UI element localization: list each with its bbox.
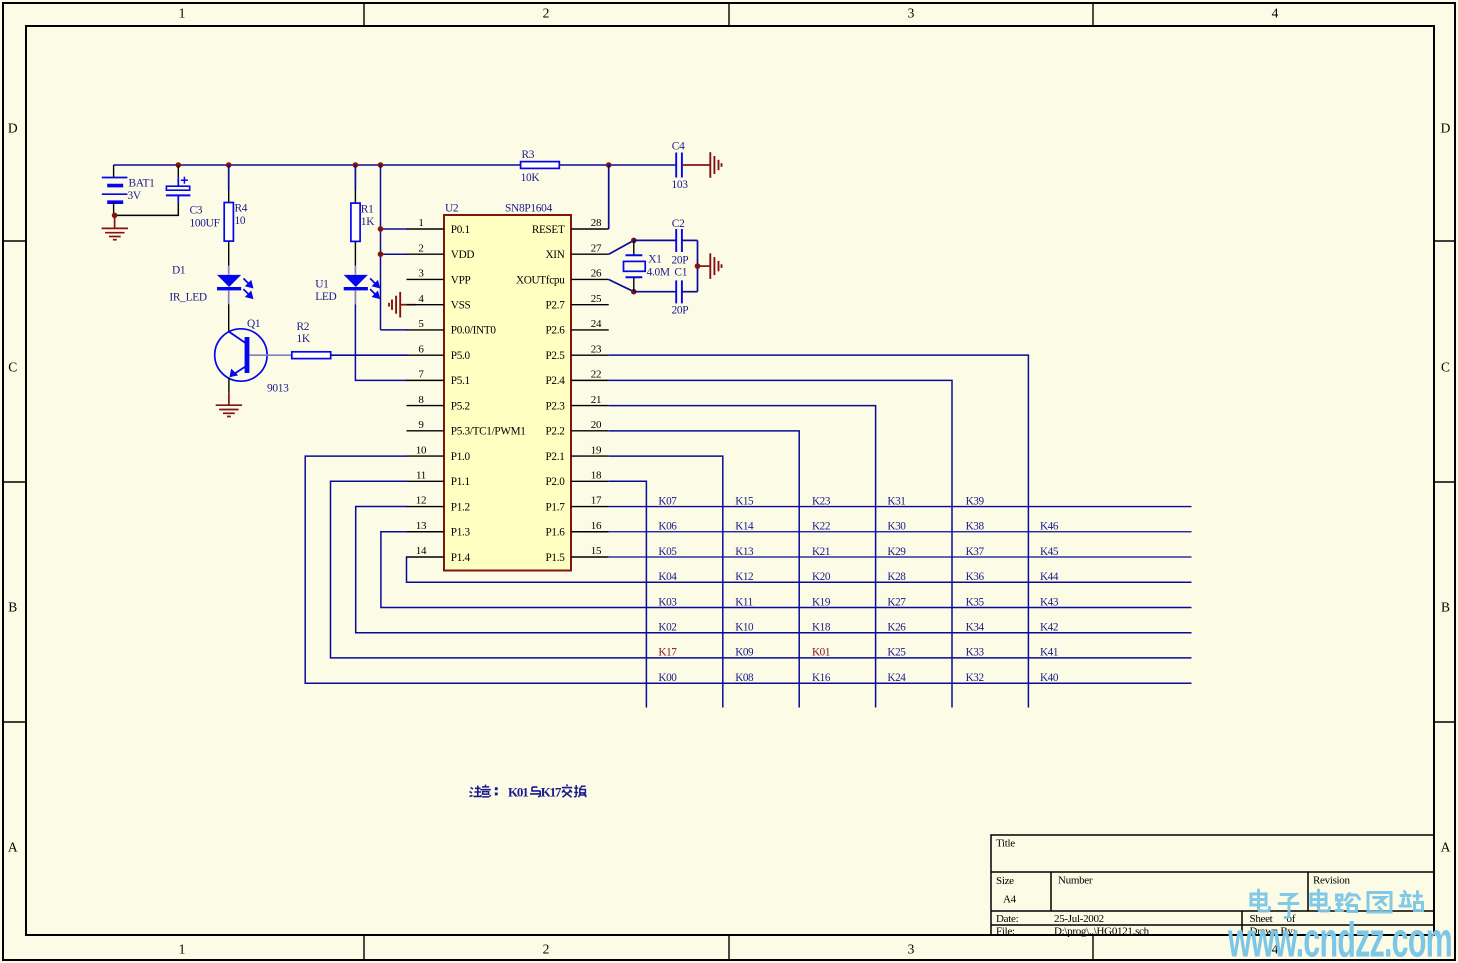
svg-text:SN8P1604: SN8P1604 [505,203,553,215]
svg-text:K37: K37 [966,546,985,558]
pin 12 P1.2 [407,495,470,514]
svg-text:2: 2 [543,6,550,21]
svg-text:C: C [8,360,17,375]
wire column P2.5 [609,355,1029,707]
svg-text:K01: K01 [508,785,528,800]
svg-text:20P: 20P [672,305,689,317]
wire battery to C3 bottom [115,203,179,215]
IC U2 SN8P1604 [444,203,571,571]
svg-text:K14: K14 [735,521,754,533]
svg-text:2: 2 [418,242,423,254]
svg-text:K22: K22 [812,521,830,533]
svg-text:K17: K17 [658,647,677,659]
resistor R3 10K [521,149,560,184]
svg-text:26: 26 [591,268,602,280]
pin 13 P1.3 [407,520,471,539]
wire row P1.4 (K04) [407,557,1192,582]
wire VCC rail [114,164,676,166]
svg-text:K21: K21 [812,546,830,558]
svg-text:3: 3 [908,6,915,21]
svg-text:P1.6: P1.6 [545,527,565,539]
svg-text:P2.6: P2.6 [545,325,565,337]
battery BAT1 3V [102,165,155,215]
svg-text:R1: R1 [361,203,374,215]
svg-text:D:\prog\..\HG0121.sch: D:\prog\..\HG0121.sch [1054,925,1150,937]
pin 26 XOUTfcpu [516,268,609,287]
svg-text:K24: K24 [887,672,906,684]
junction VDD/P0.1 [378,226,384,232]
ground Q1 GND [228,392,230,405]
watermark cndzz.com [1251,890,1423,918]
svg-text:K44: K44 [1040,571,1059,583]
svg-text:Size: Size [996,875,1014,887]
svg-text:K08: K08 [735,672,754,684]
pin 7 P5.1 [407,369,470,388]
svg-text:X1: X1 [648,253,662,265]
svg-text:K11: K11 [735,596,753,608]
svg-text:Date:: Date: [996,913,1019,925]
svg-text:XIN: XIN [546,249,565,261]
svg-text:1: 1 [418,217,423,229]
svg-text:A: A [8,840,18,855]
svg-text:27: 27 [591,242,602,254]
pin 4 VSS [407,293,471,312]
svg-text:Revision: Revision [1313,875,1351,887]
svg-text:20: 20 [591,419,602,431]
pin 8 P5.2 [407,394,470,413]
svg-text:10K: 10K [521,172,541,184]
svg-text:C2: C2 [672,218,685,230]
pin 14 P1.4 [407,545,471,564]
wire column P2.4 [609,380,952,707]
svg-text:K04: K04 [658,571,677,583]
svg-text:K39: K39 [966,495,985,507]
svg-text:13: 13 [416,520,427,532]
wire column P2.2 [609,431,800,708]
wire D1 to Q1 collector [228,304,230,331]
pin 6 P5.0 [407,343,471,362]
pin 19 P2.1 [545,444,608,463]
pin 27 XIN [546,242,609,261]
svg-text:K28: K28 [887,571,906,583]
svg-text:11: 11 [416,470,426,482]
crystal X1 4.0M [624,240,670,291]
wire row P1.0 (K00) [305,456,1191,683]
svg-text:9: 9 [418,419,424,431]
svg-text:15: 15 [591,545,602,557]
svg-text:103: 103 [672,179,689,191]
svg-text:K18: K18 [812,622,831,634]
svg-text:File:: File: [996,925,1015,937]
transistor Q1 9013 [215,318,292,395]
svg-text:P0.1: P0.1 [451,224,470,236]
svg-text:C: C [1441,360,1450,375]
wire row P1.3 (K03) [381,532,1192,608]
svg-text:K00: K00 [658,672,677,684]
wire row P1.1 (K17) [331,481,1192,658]
wire XIN diagonal [609,240,634,254]
wire RESET net [608,165,610,229]
svg-text:K23: K23 [812,495,831,507]
svg-text:4.0M: 4.0M [647,267,670,279]
pin 1 P0.1 [407,217,470,236]
svg-text:P2.0: P2.0 [545,476,565,488]
svg-text:D: D [1441,120,1451,135]
svg-text:1: 1 [179,6,186,21]
svg-text:R4: R4 [235,203,248,215]
svg-text:K03: K03 [658,596,677,608]
junction XIN node [631,238,637,244]
capacitor C3 100UF [166,166,220,230]
ground battery GND [114,215,116,228]
svg-text:1K: 1K [297,333,311,345]
svg-text:K20: K20 [812,571,831,583]
svg-text:P1.5: P1.5 [545,552,565,564]
svg-text:3V: 3V [128,190,142,202]
svg-text:K26: K26 [887,622,906,634]
pin 23 P2.5 [545,343,608,362]
wire U1 cathode to pin P5.1 [355,304,407,380]
pin 24 P2.6 [545,318,608,337]
svg-text:3: 3 [908,942,915,957]
svg-text:P2.3: P2.3 [545,400,565,412]
svg-text:K46: K46 [1040,521,1059,533]
junction XOUT node [631,289,637,295]
svg-text:VSS: VSS [451,299,471,311]
svg-text:K09: K09 [735,647,754,659]
svg-text:K33: K33 [966,647,985,659]
wire column P2.3 [609,406,876,708]
pin 21 P2.3 [545,394,608,413]
svg-text:K42: K42 [1040,622,1058,634]
svg-text:100UF: 100UF [190,218,220,230]
svg-text:P2.1: P2.1 [545,451,564,463]
pin 16 P1.6 [545,520,608,539]
svg-text:10: 10 [235,215,246,227]
wire row P1.5 (K05) [609,556,1192,558]
svg-text:K34: K34 [966,622,985,634]
wire VCC to R1 [354,165,356,191]
pin 5 P0.0/INT0 [407,318,497,337]
wire R2 to pin P5.0 [331,354,408,356]
wire VCC to VDD / P0.1 / INT0 [381,165,408,330]
svg-text:25-Jul-2002: 25-Jul-2002 [1054,913,1104,925]
pin 10 P1.0 [407,444,471,463]
svg-text:A4: A4 [1003,893,1017,905]
svg-text:K29: K29 [887,546,906,558]
svg-text:P1.0: P1.0 [451,451,471,463]
capacitor C2 20P [634,218,698,266]
svg-text:P5.1: P5.1 [451,375,470,387]
svg-text:22: 22 [591,369,601,381]
svg-text:P1.2: P1.2 [451,501,470,513]
svg-text:K13: K13 [735,546,754,558]
svg-text:5: 5 [418,318,424,330]
svg-text:www.cndzz.com: www.cndzz.com [1227,912,1452,963]
junction VCC/C3 [176,162,182,168]
wire Q1 emitter to ground [228,377,230,392]
svg-text:16: 16 [591,520,602,532]
svg-text:4: 4 [418,293,424,305]
svg-text:C4: C4 [672,141,685,153]
svg-text:K15: K15 [735,495,754,507]
svg-text:10: 10 [416,444,427,456]
svg-text:K32: K32 [966,672,984,684]
svg-text:VDD: VDD [451,249,475,261]
svg-text:25: 25 [591,293,602,305]
svg-text:P0.0/INT0: P0.0/INT0 [451,325,497,337]
capacitor C4 103 [672,141,711,191]
svg-text:B: B [1441,600,1450,615]
svg-text:K17: K17 [541,785,562,800]
svg-text:2: 2 [543,942,550,957]
svg-text:K41: K41 [1040,647,1058,659]
LED U1 LED [315,266,379,304]
svg-text:28: 28 [591,217,602,229]
svg-text:P1.4: P1.4 [451,552,471,564]
svg-text:R2: R2 [297,321,310,333]
svg-text:P5.2: P5.2 [451,400,470,412]
wire column P2.0 [609,481,647,707]
svg-text:P5.0: P5.0 [451,350,471,362]
svg-text:1: 1 [179,942,186,957]
junction VDD/VDD-pin [378,251,384,257]
wire VCC to R4 [228,165,230,191]
svg-text:R3: R3 [522,149,535,161]
ground crystal GND [698,265,711,267]
svg-text:K07: K07 [658,495,677,507]
junction battery/ground [112,213,118,219]
svg-text:23: 23 [591,343,602,355]
svg-text:K05: K05 [658,546,677,558]
svg-text:K16: K16 [812,672,831,684]
wire C2/C1 vertical [697,240,699,291]
svg-text:7: 7 [418,369,424,381]
pin 25 P2.7 [545,293,608,312]
wire column P2.1 [609,456,723,707]
svg-text:K25: K25 [887,647,906,659]
svg-text:K02: K02 [658,622,676,634]
svg-text:Q1: Q1 [247,318,261,330]
svg-text:K45: K45 [1040,546,1059,558]
svg-text:4: 4 [1272,6,1279,21]
svg-text:K40: K40 [1040,672,1059,684]
svg-text:20P: 20P [672,254,689,266]
svg-text:K36: K36 [966,571,985,583]
svg-text:17: 17 [591,495,602,507]
svg-text:Number: Number [1058,875,1093,887]
pin 11 P1.1 [407,470,470,489]
resistor R4 10 [224,191,248,266]
pin 3 VPP [407,268,471,287]
wire row P1.2 (K02) [356,507,1192,633]
svg-text:IR_LED: IR_LED [169,291,207,303]
svg-text:D: D [8,120,18,135]
junction VCC/R4 [226,162,232,168]
svg-text:K43: K43 [1040,596,1059,608]
svg-text:P2.2: P2.2 [545,426,564,438]
capacitor C1 20P [634,267,698,317]
svg-text:P2.4: P2.4 [545,375,565,387]
svg-text:12: 12 [416,495,426,507]
svg-text:P5.3/TC1/PWM1: P5.3/TC1/PWM1 [451,426,526,438]
svg-text:C3: C3 [190,205,203,217]
svg-text:K06: K06 [658,521,677,533]
svg-text:1K: 1K [361,216,375,228]
LED D1 IR_LED [169,264,252,304]
svg-text:18: 18 [591,470,602,482]
svg-text:14: 14 [416,545,427,557]
svg-text:19: 19 [591,444,602,456]
svg-text:P1.3: P1.3 [451,527,471,539]
wire row P1.6 (K06) [609,531,1192,533]
ground VSS [400,304,416,306]
svg-text:K19: K19 [812,596,831,608]
junction crystal ground node [695,263,701,269]
svg-text:21: 21 [591,394,601,406]
svg-text:A: A [1441,840,1451,855]
svg-text:K38: K38 [966,521,985,533]
resistor R2 1K [292,321,331,359]
svg-text:9013: 9013 [267,382,289,394]
svg-text:K35: K35 [966,596,985,608]
svg-text:8: 8 [418,394,424,406]
pin 17 P1.7 [545,495,608,514]
svg-text:K30: K30 [887,521,906,533]
svg-text:BAT1: BAT1 [129,178,156,190]
svg-text:VPP: VPP [451,274,471,286]
resistor R1 1K [351,191,375,266]
svg-text:P2.5: P2.5 [545,350,565,362]
title block [991,835,1434,937]
junction VCC/RESET [606,162,612,168]
svg-text:3: 3 [418,268,424,280]
svg-text:P1.7: P1.7 [545,501,565,513]
svg-text:Title: Title [996,838,1015,850]
svg-text:K01: K01 [812,647,830,659]
svg-text:U1: U1 [315,279,329,291]
svg-text:K12: K12 [735,571,753,583]
svg-text:K10: K10 [735,622,754,634]
svg-text:D1: D1 [172,264,186,276]
pin 9 P5.3/TC1/PWM1 [407,419,526,438]
wire XOUT diagonal [609,280,634,292]
pin 15 P1.5 [545,545,608,564]
svg-text:6: 6 [418,343,424,355]
svg-text:K27: K27 [887,596,906,608]
wire row P1.7 (K07) [609,506,1192,508]
ground C4 GND [710,152,721,178]
svg-text:P2.7: P2.7 [545,299,565,311]
svg-text:RESET: RESET [532,224,565,236]
svg-text:K31: K31 [887,495,905,507]
svg-text:B: B [8,600,17,615]
svg-text:LED: LED [315,291,336,303]
svg-text:P1.1: P1.1 [451,476,470,488]
svg-text:24: 24 [591,318,602,330]
svg-text:C1: C1 [674,267,687,279]
svg-text:U2: U2 [445,203,459,215]
pin 18 P2.0 [545,470,608,489]
pin 20 P2.2 [545,419,608,438]
note text: K01/K17 swap [470,785,587,800]
pin 28 RESET [532,217,609,236]
svg-text:XOUTfcpu: XOUTfcpu [516,274,565,286]
pin 22 P2.4 [545,369,608,388]
pin 2 VDD [407,242,475,261]
junction VCC/R1 [353,162,359,168]
junction VCC/VDD [378,162,384,168]
